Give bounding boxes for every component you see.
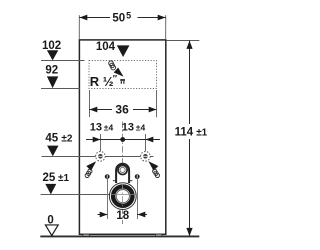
svg-text:13: 13 (90, 122, 102, 134)
svg-text:114: 114 (175, 126, 194, 138)
svg-text:45: 45 (45, 132, 58, 144)
svg-text:5: 5 (126, 10, 131, 20)
svg-text:±1: ±1 (58, 173, 69, 184)
svg-text:18: 18 (116, 210, 129, 222)
svg-text:R ½: R ½ (90, 74, 114, 89)
svg-text:25: 25 (43, 172, 56, 184)
svg-text:104: 104 (96, 41, 116, 53)
svg-text:″: ″ (113, 74, 118, 84)
svg-text:±4: ±4 (136, 123, 146, 133)
svg-text:±2: ±2 (61, 133, 72, 144)
svg-text:36: 36 (115, 103, 129, 117)
svg-text:±1: ±1 (196, 127, 207, 138)
svg-text:±4: ±4 (104, 123, 114, 133)
svg-text:50: 50 (112, 13, 125, 25)
svg-text:92: 92 (45, 65, 58, 77)
svg-text:13: 13 (122, 122, 134, 134)
